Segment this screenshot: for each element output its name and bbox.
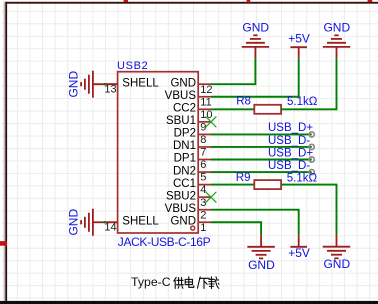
svg-text:GND: GND — [323, 21, 350, 35]
net label GND (vertical, pin 13) — [66, 71, 80, 98]
svg-text:USB_D+: USB_D+ — [268, 122, 313, 134]
wire pin 12 to GND — [211, 58, 255, 84]
svg-text:10: 10 — [200, 109, 212, 121]
svg-text:2: 2 — [200, 209, 206, 221]
svg-text:GND: GND — [248, 258, 275, 272]
pin 6 DP1 — [174, 153, 211, 171]
svg-text:11: 11 — [200, 96, 211, 108]
net label USB_D- pin 5 — [268, 160, 310, 172]
svg-text:7: 7 — [200, 147, 206, 159]
svg-text:14: 14 — [104, 221, 116, 233]
ground GND top-left — [242, 21, 270, 59]
svg-text:12: 12 — [200, 84, 212, 96]
svg-text:3: 3 — [200, 197, 206, 209]
pin 9 SBU1 — [166, 115, 211, 133]
ground GND top-right — [323, 21, 351, 59]
wire pin 6 net USB_D+ — [211, 159, 312, 161]
svg-text:DN1: DN1 — [173, 140, 196, 152]
svg-text:1: 1 — [200, 222, 206, 234]
pin 13 SHELL — [104, 77, 159, 95]
ground GND at pin 13 — [81, 71, 118, 98]
wire pin 7 net USB_D- — [211, 146, 312, 148]
svg-text:+5V: +5V — [288, 246, 310, 260]
resistor R8 — [254, 105, 281, 114]
wire pin 4 to R9 — [211, 184, 254, 186]
wire R8 to GND — [281, 58, 336, 109]
net label GND (vertical, pin 14) — [66, 209, 80, 236]
wire pin 1 to GND — [211, 222, 261, 235]
pin 5 DN2 — [173, 165, 211, 183]
svg-text:SHELL: SHELL — [122, 77, 159, 89]
svg-text:SBU2: SBU2 — [166, 190, 196, 202]
svg-text:R9: R9 — [236, 172, 251, 184]
wire pin 2 to +5V — [211, 210, 299, 236]
no-connect X pin 3 — [206, 192, 217, 203]
svg-text:JACK-USB-C-16P: JACK-USB-C-16P — [118, 235, 211, 249]
net label USB_D- pin 7 — [268, 135, 310, 147]
value JACK-USB-C-16P — [118, 235, 211, 249]
net label USB_D+ pin 8 — [268, 122, 313, 134]
svg-text:SBU1: SBU1 — [166, 115, 196, 127]
wire pin 10 to R8 — [211, 108, 254, 110]
svg-text:VBUS: VBUS — [165, 203, 197, 215]
pin 3 SBU2 — [166, 190, 211, 208]
svg-text:5.1kΩ: 5.1kΩ — [287, 172, 318, 184]
no-connect X pin 9 — [206, 116, 217, 127]
svg-text:8: 8 — [200, 134, 206, 146]
pin 10 CC2 — [173, 103, 213, 121]
label R8 — [236, 96, 251, 108]
svg-text:DP2: DP2 — [174, 128, 196, 140]
svg-text:Type-C: Type-C — [131, 275, 171, 289]
svg-text:GND: GND — [323, 257, 350, 271]
svg-text:CC1: CC1 — [173, 178, 196, 190]
svg-text:R8: R8 — [236, 96, 251, 108]
pin 4 CC1 — [173, 178, 211, 196]
svg-text:USB_D-: USB_D- — [268, 135, 310, 147]
wire pin 11 to +5V — [211, 59, 299, 97]
svg-text:4: 4 — [200, 184, 206, 196]
sheet title Type-C power/download — [131, 275, 219, 289]
pin 1 GND — [170, 215, 211, 233]
resistor R9 — [254, 180, 281, 189]
pin 7 DN1 — [173, 140, 211, 158]
port ring USB_D+ pin 6 — [309, 157, 314, 162]
svg-text:DP1: DP1 — [174, 153, 196, 165]
svg-text:GND: GND — [170, 77, 196, 89]
junction pin 13 — [104, 83, 107, 86]
svg-text:USB_D+: USB_D+ — [268, 147, 313, 159]
power +5V top — [288, 32, 310, 59]
label R9 — [236, 172, 251, 184]
svg-text:CC2: CC2 — [173, 103, 196, 115]
pin 12 GND — [170, 77, 212, 95]
port ring USB_D- pin 7 — [309, 144, 314, 149]
pin 2 VBUS — [165, 203, 211, 221]
svg-text:GND: GND — [242, 21, 269, 35]
junction pin 14 — [104, 221, 107, 224]
svg-text:9: 9 — [200, 121, 206, 133]
port ring USB_D- pin 5 — [309, 169, 314, 174]
pin 11 VBUS — [165, 90, 212, 108]
svg-text:6: 6 — [200, 159, 206, 171]
svg-text:USB2: USB2 — [117, 60, 148, 72]
svg-text:GND: GND — [66, 71, 80, 98]
connector USB2 body — [118, 72, 199, 233]
ground GND bottom-left — [247, 235, 275, 272]
svg-text:USB_D-: USB_D- — [268, 160, 310, 172]
label 5.1kOhm (R8) — [287, 96, 318, 108]
refdes USB2 — [117, 60, 148, 72]
pin 1 polarity bubble — [191, 226, 195, 230]
pin 14 SHELL — [104, 215, 159, 233]
svg-text:13: 13 — [104, 83, 116, 95]
ground GND bottom-right — [323, 235, 351, 271]
svg-text:5.1kΩ: 5.1kΩ — [287, 96, 318, 108]
power +5V bottom — [288, 235, 310, 260]
label 5.1kOhm (R9) — [287, 172, 318, 184]
net label USB_D+ pin 6 — [268, 147, 313, 159]
wire pin 5 net USB_D- — [211, 171, 312, 173]
ground GND at pin 14 — [81, 209, 118, 236]
port ring USB_D+ pin 8 — [309, 132, 314, 137]
pin 8 DP2 — [174, 128, 211, 146]
svg-text:VBUS: VBUS — [165, 90, 197, 102]
svg-text:GND: GND — [66, 209, 80, 236]
svg-text:5: 5 — [200, 172, 206, 184]
wire pin 8 net USB_D+ — [211, 133, 312, 135]
wire R9 to GND — [281, 185, 336, 236]
svg-text:SHELL: SHELL — [122, 215, 159, 227]
svg-text:+5V: +5V — [288, 32, 310, 46]
svg-text:DN2: DN2 — [173, 165, 196, 177]
